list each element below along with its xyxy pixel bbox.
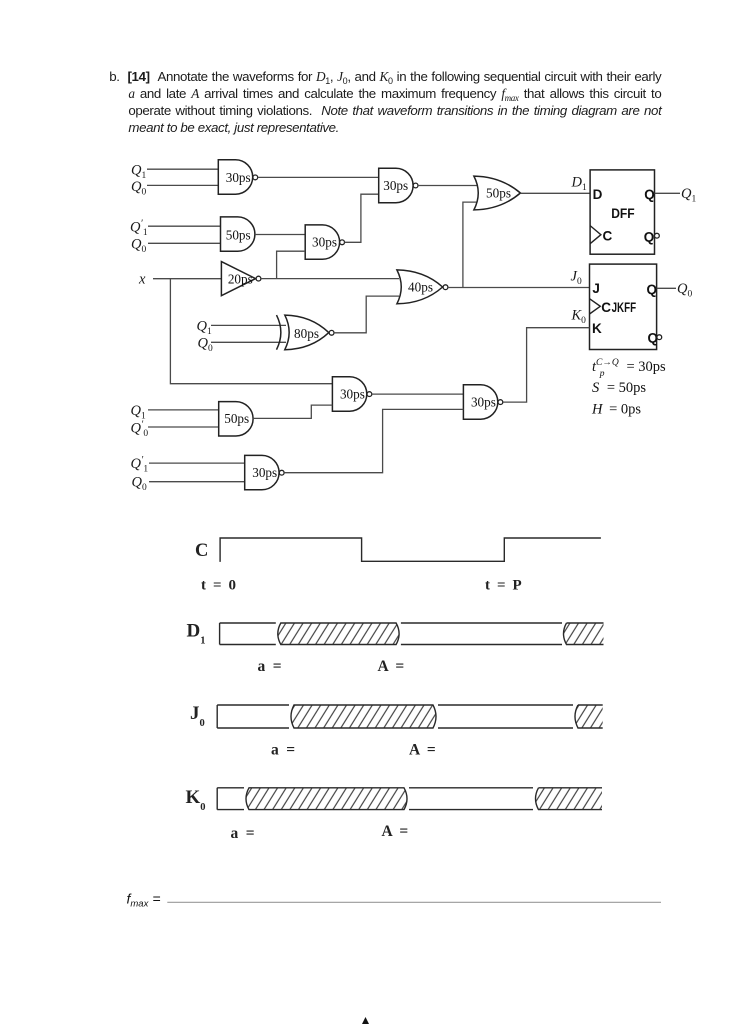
svg-text:30ps: 30ps <box>383 178 408 193</box>
svg-text:t = P: t = P <box>485 578 523 594</box>
wire <box>149 481 245 483</box>
svg-text:Q1: Q1 <box>197 319 212 338</box>
wire <box>148 426 219 428</box>
wire (x branch down to G8) <box>170 279 332 384</box>
wire <box>253 405 332 418</box>
svg-text:30ps: 30ps <box>312 235 337 250</box>
svg-text:JKFF: JKFF <box>612 300 637 315</box>
OR gate G9 50ps <box>474 176 521 210</box>
svg-text:K0: K0 <box>186 787 206 813</box>
waveform hatched region 2 (K0) <box>536 788 603 810</box>
svg-text:20ps: 20ps <box>228 271 253 286</box>
svg-text:Q: Q <box>647 282 658 297</box>
svg-text:Q′ 1: Q′ 1 <box>130 219 148 239</box>
svg-text:30ps: 30ps <box>471 395 496 410</box>
svg-text:A =: A = <box>378 658 406 675</box>
svg-text:DFF: DFF <box>611 206 635 221</box>
NOR gate G7 40ps <box>397 270 448 304</box>
svg-text:J0: J0 <box>190 703 205 729</box>
svg-text:K: K <box>592 321 602 336</box>
svg-text:50ps: 50ps <box>226 227 251 242</box>
wire <box>258 176 379 178</box>
svg-text:t = 0: t = 0 <box>201 578 238 594</box>
wire <box>147 184 218 186</box>
problem statement text <box>109 68 661 85</box>
wire (DFF Q out) <box>655 192 681 194</box>
wire <box>148 409 219 411</box>
svg-text:D1: D1 <box>571 175 587 194</box>
svg-text:80ps: 80ps <box>294 326 319 341</box>
waveform hatched region 1 (J0) <box>291 705 436 728</box>
svg-text:J0: J0 <box>571 269 582 288</box>
svg-text:Q1: Q1 <box>681 186 696 205</box>
wire <box>255 234 305 236</box>
svg-text:Q1: Q1 <box>131 403 146 422</box>
svg-text:Q0: Q0 <box>198 336 213 355</box>
wire <box>261 278 399 280</box>
answer blank line <box>167 901 661 903</box>
wire (JKFF K input) <box>503 328 589 402</box>
XNOR gate G6 80ps <box>277 315 335 350</box>
NAND gate G12 30ps <box>245 455 284 489</box>
wire <box>372 393 464 395</box>
wire (branch up to OR) <box>463 202 478 287</box>
AND gate G10 50ps <box>219 402 253 436</box>
svg-text:tC→Qp= 30ps: tC→Qp= 30ps <box>592 358 666 379</box>
wire <box>148 242 221 244</box>
svg-text:Q: Q <box>644 230 655 245</box>
svg-text:a =: a = <box>231 825 257 842</box>
svg-text:D1: D1 <box>187 621 206 647</box>
svg-text:S = 50ps: S = 50ps <box>592 380 646 396</box>
svg-text:50ps: 50ps <box>486 185 511 200</box>
svg-text:C: C <box>601 300 611 315</box>
waveform hatched region 2 (J0) <box>575 705 603 728</box>
svg-text:fmax=: fmax= <box>127 891 161 910</box>
svg-text:Q0: Q0 <box>677 281 692 300</box>
svg-text:A =: A = <box>409 742 437 759</box>
svg-text:a =: a = <box>258 658 284 675</box>
D flip-flop DFF <box>590 170 659 254</box>
waveform hatched region 1 (D1) <box>278 623 399 645</box>
svg-text:D: D <box>593 187 603 202</box>
flip-flop timing parameters <box>591 358 666 418</box>
waveform band K0 (plain segments) <box>217 788 533 810</box>
svg-text:a =: a = <box>271 742 297 759</box>
svg-text:Q′ 1: Q′ 1 <box>131 455 149 475</box>
JK flip-flop JKFF <box>590 264 662 349</box>
svg-text:Q0: Q0 <box>131 237 146 256</box>
svg-text:C: C <box>603 228 613 243</box>
wire <box>418 185 477 187</box>
wire <box>148 225 221 227</box>
svg-text:30ps: 30ps <box>252 465 277 480</box>
svg-text:A =: A = <box>382 823 410 840</box>
page number mark (cut off) <box>362 1017 369 1024</box>
svg-text:K0: K0 <box>571 308 587 327</box>
wire <box>153 278 221 280</box>
NAND gate G3 30ps <box>305 225 344 259</box>
wire <box>211 341 286 343</box>
svg-text:J: J <box>592 281 600 296</box>
svg-text:Q: Q <box>644 187 655 202</box>
waveform band D1 (plain segments) <box>220 623 562 645</box>
NAND gate G11 30ps <box>463 385 502 419</box>
NAND gate G8 30ps <box>332 377 371 411</box>
inverter G5 20ps <box>221 262 261 296</box>
waveform band J0 (plain segments) <box>217 705 573 728</box>
NAND gate G1 30ps <box>218 160 257 194</box>
wire <box>284 409 463 472</box>
svg-text:40ps: 40ps <box>408 280 433 295</box>
svg-text:C: C <box>195 541 208 561</box>
wire (OR out to DFF D) <box>520 192 590 194</box>
svg-text:30ps: 30ps <box>340 387 365 402</box>
waveform hatched region 1 (K0) <box>246 788 407 810</box>
wire (branch up to G3) <box>277 251 306 278</box>
wire <box>147 168 218 170</box>
wire (NOR out to JKFF J) <box>448 287 590 289</box>
waveform hatched region 2 (D1) <box>564 623 604 645</box>
svg-text:Q0: Q0 <box>132 475 147 494</box>
svg-text:30ps: 30ps <box>226 170 251 185</box>
clock waveform C <box>220 538 601 562</box>
wire <box>211 324 286 326</box>
NAND gate G2 30ps <box>379 168 418 202</box>
svg-text:50ps: 50ps <box>224 411 249 426</box>
AND gate G4 50ps <box>221 217 255 251</box>
wire (JKFF Q out) <box>657 287 676 289</box>
wire <box>334 296 399 333</box>
svg-text:H = 0ps: H = 0ps <box>591 402 641 418</box>
svg-text:Q′ 0: Q′ 0 <box>131 420 149 440</box>
svg-text:x: x <box>138 272 146 288</box>
svg-text:Q0: Q0 <box>131 179 146 198</box>
wire <box>149 462 245 464</box>
wire <box>345 194 379 242</box>
